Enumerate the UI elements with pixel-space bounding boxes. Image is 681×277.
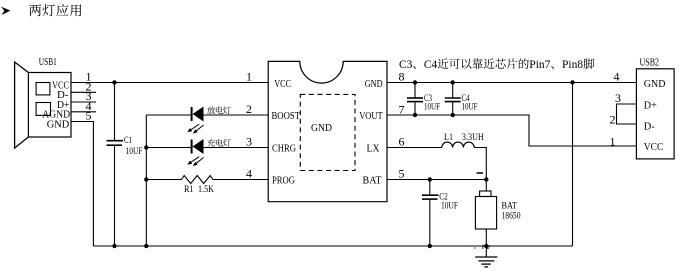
svg-text:1: 1: [246, 70, 252, 84]
svg-text:USB1: USB1: [39, 57, 57, 68]
op-amp-style IC body with notch: [268, 61, 387, 201]
node junction C4 bottom: [451, 113, 455, 117]
wire R1 to IC PROG: [213, 179, 268, 181]
node junction C2 bottom on ground rail: [428, 244, 432, 248]
wire LED1 to IC BOOST: [204, 114, 269, 116]
svg-text:4: 4: [614, 70, 620, 84]
wire USB1 pin5 GND down to ground rail: [71, 122, 93, 247]
svg-text:GND: GND: [311, 122, 332, 134]
node junction C2 top: [428, 177, 432, 181]
ground symbol: [475, 246, 497, 267]
svg-text:D+: D+: [644, 100, 657, 111]
wire USB1 pin3 stub D+: [71, 101, 96, 103]
svg-text:10UF: 10UF: [441, 201, 458, 211]
svg-text:10UF: 10UF: [126, 147, 143, 157]
svg-text:10UF: 10UF: [424, 102, 440, 112]
capacitor C3: [407, 83, 440, 116]
label 放电灯: [207, 106, 231, 114]
battery BAT 18650: [475, 180, 520, 247]
resistor R1: [179, 176, 213, 184]
svg-text:GND: GND: [644, 79, 666, 90]
wire IC VOUT pin7 to USB2 VCC: [387, 115, 636, 146]
svg-text:2: 2: [610, 113, 616, 127]
capacitor C2: [422, 180, 458, 247]
svg-text:BAT: BAT: [502, 202, 518, 212]
svg-text:Pin7: Pin7: [529, 59, 550, 71]
wire bus to LED1: [146, 114, 191, 116]
svg-text:10UF: 10UF: [462, 102, 478, 112]
svg-text:BAT: BAT: [363, 174, 382, 186]
svg-text:L1: L1: [444, 133, 453, 143]
capacitor C1: [107, 83, 143, 247]
svg-text:CHRG: CHRG: [272, 142, 296, 154]
note text C3、C4近可以靠近芯片的Pin7、Pin8脚: [399, 58, 594, 71]
node junction C1 top on VCC net: [112, 80, 116, 84]
svg-text:5: 5: [399, 167, 405, 181]
node junction GND-net / USB2 branch: [570, 80, 574, 84]
svg-text:BOOST: BOOST: [272, 110, 301, 122]
node junction bus-PROG branch: [144, 177, 148, 181]
node junction bus-CHRG branch: [144, 145, 148, 149]
svg-text:PROG: PROG: [272, 174, 295, 186]
svg-text:18650: 18650: [502, 211, 521, 221]
svg-text:2: 2: [246, 102, 252, 116]
svg-text:5: 5: [86, 109, 92, 123]
label 充电灯: [207, 139, 231, 147]
wire bus to R1: [146, 179, 179, 181]
svg-text:6: 6: [399, 135, 405, 149]
svg-text:Pin8: Pin8: [562, 59, 583, 71]
wire LED cathode bus: [145, 115, 147, 246]
LED D1 discharge: [187, 107, 203, 134]
svg-text:3: 3: [246, 135, 252, 149]
svg-text:2: 2: [480, 245, 491, 250]
inductor L1: [442, 142, 474, 147]
wire USB2 D+ / D- short: [617, 104, 637, 124]
svg-text:3.3UH: 3.3UH: [462, 133, 484, 143]
node junction C1 bottom on ground rail: [112, 244, 116, 248]
title bullet arrow: [1, 7, 10, 15]
wire IC BAT to battery: [387, 179, 486, 181]
connector USB2 body: [636, 69, 674, 159]
wire IC LX to inductor: [387, 147, 442, 149]
svg-text:GND: GND: [47, 119, 70, 130]
wire ground rail bottom: [93, 245, 572, 247]
wire USB1 pin1 VCC to IC: [71, 82, 268, 84]
svg-text:R1: R1: [184, 185, 194, 195]
svg-text:8: 8: [399, 70, 405, 84]
battery minus sign: [477, 172, 484, 174]
svg-text:LX: LX: [367, 142, 380, 154]
title text 两灯应用: [29, 4, 81, 16]
wire LED2 to IC CHRG: [204, 147, 269, 149]
wire IC GND pin8 to USB2 GND: [387, 82, 636, 84]
node junction bus-ground rail: [144, 244, 148, 248]
node junction C3 bottom: [413, 113, 417, 117]
svg-text:1.5K: 1.5K: [198, 185, 214, 195]
svg-text:GND: GND: [365, 78, 383, 90]
wire inductor to battery node: [474, 148, 486, 180]
svg-text:D-: D-: [644, 122, 655, 133]
svg-text:C4: C4: [424, 59, 438, 71]
LED D2 charge: [187, 139, 203, 166]
wire GND net down right side: [572, 83, 574, 247]
wire USB1 pin2 stub D-: [71, 91, 96, 93]
svg-text:3: 3: [615, 91, 621, 105]
svg-text:VCC: VCC: [274, 78, 291, 90]
node junction battery top: [484, 177, 488, 181]
node junction C3 top: [413, 80, 417, 84]
svg-text:1: 1: [610, 134, 616, 148]
wire USB1 pin4 stub AGND: [71, 111, 96, 113]
wire bus to LED2: [146, 147, 191, 149]
connector USB1 body: [15, 62, 71, 148]
node junction C4 top: [451, 80, 455, 84]
svg-text:VOUT: VOUT: [359, 110, 383, 122]
capacitor C4: [445, 83, 478, 116]
svg-text:4: 4: [246, 167, 252, 181]
svg-text:VCC: VCC: [644, 142, 664, 153]
svg-text:7: 7: [399, 103, 405, 117]
node junction battery bottom on ground rail: [484, 244, 488, 248]
svg-text:USB2: USB2: [640, 57, 660, 68]
svg-text:C1: C1: [124, 136, 132, 146]
